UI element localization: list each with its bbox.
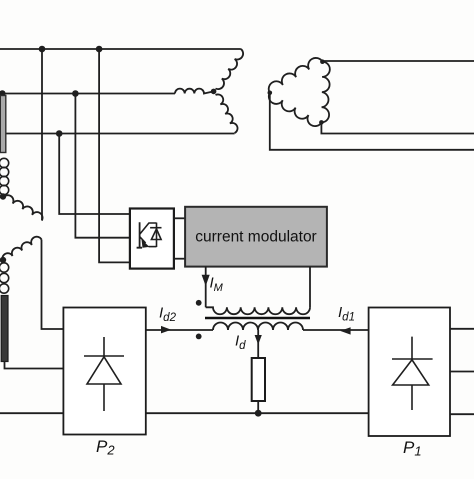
converter P2 box xyxy=(63,308,145,435)
wire rotor to P2 xyxy=(42,240,64,330)
P1 diode triangle xyxy=(393,360,429,385)
rotor winding lower xyxy=(2,237,41,262)
resistor R xyxy=(252,358,265,401)
transformer T2 secondary xyxy=(213,323,303,330)
wire P1 right top xyxy=(450,328,474,330)
transformer T2 core xyxy=(205,317,310,320)
transformer T2 polarity dot lower xyxy=(196,334,202,340)
wire L1 to converter K xyxy=(99,49,130,262)
node delta bottom xyxy=(319,120,324,125)
transformer T2 primary xyxy=(206,307,310,314)
wire left edge to P2 xyxy=(0,412,63,414)
P1 diode line xyxy=(411,337,413,410)
converter P1 box xyxy=(369,308,450,437)
junction dot L3-a xyxy=(56,130,63,137)
converter K box xyxy=(130,209,174,269)
P2 diode line xyxy=(103,337,105,411)
diode D1 line xyxy=(156,223,158,247)
wire P1 right mid xyxy=(450,371,474,373)
machine M1 star point xyxy=(211,89,217,95)
transformer T1 delta side BL xyxy=(269,93,322,126)
wire K to modulator lower xyxy=(174,258,185,260)
IGBT collector lead xyxy=(140,223,157,234)
wire winding to P1 xyxy=(303,329,369,331)
IGBT emitter arrow xyxy=(142,239,150,247)
node delta top xyxy=(320,59,325,64)
P2 diode cathode bar xyxy=(84,355,124,357)
P2 diode triangle xyxy=(87,357,121,384)
machine M1 winding phase c xyxy=(216,94,238,133)
wire winding to resistor xyxy=(257,330,259,358)
brush bar lower xyxy=(1,296,8,362)
machine M1 winding phase a xyxy=(216,49,244,89)
current modulator box xyxy=(185,207,327,267)
node coil-rotor lower xyxy=(0,257,6,263)
svg-text:current modulator: current modulator xyxy=(195,229,316,246)
node coil-rotor upper xyxy=(0,193,6,199)
wire modulator to transformer right xyxy=(309,267,311,308)
rotor winding upper xyxy=(3,195,43,220)
wire resistor to bus xyxy=(257,401,259,413)
transformer T2 polarity dot upper xyxy=(196,300,202,306)
junction dot L1-a xyxy=(39,46,46,53)
IGBT emitter wire xyxy=(149,246,157,248)
junction dot L1-b xyxy=(96,46,103,53)
node bottom bus xyxy=(255,410,262,417)
junction dot L2-b xyxy=(72,90,79,97)
wire delta top terminal xyxy=(322,60,474,62)
arrow I_M xyxy=(202,275,210,286)
bus line L2 xyxy=(0,93,175,95)
field coil lower xyxy=(0,263,9,272)
diode D1 triangle xyxy=(151,229,161,240)
IGBT emitter lead xyxy=(140,237,146,244)
P1 diode cathode bar xyxy=(392,358,433,360)
arrow I_d2 xyxy=(161,326,171,334)
brush bar upper xyxy=(0,96,6,153)
wire P2 to winding xyxy=(146,329,213,331)
machine M1 winding phase b xyxy=(175,89,214,94)
arrow I_d1 xyxy=(340,327,350,334)
junction dot L2-a xyxy=(0,90,6,97)
diode D1 cathode bar xyxy=(150,227,161,229)
transformer T1 delta side TB xyxy=(321,62,329,123)
IGBT gate bar xyxy=(137,222,143,248)
wire K to modulator upper xyxy=(174,217,185,219)
wire delta left terminal xyxy=(270,93,474,150)
wire bottom bus xyxy=(146,412,369,414)
wire brush to P2 xyxy=(5,362,64,369)
wire delta bottom terminal xyxy=(321,122,474,133)
wire L2 to converter K xyxy=(75,94,129,238)
wire L3 to converter K xyxy=(59,134,130,215)
arrow I_d xyxy=(255,335,262,345)
transformer T1 delta side LT xyxy=(269,58,323,93)
bus line L1 xyxy=(0,48,241,50)
wire modulator to transformer left xyxy=(205,267,207,308)
field coil upper xyxy=(0,158,9,167)
bus line L3 xyxy=(0,133,235,135)
wire L1 to left machine xyxy=(41,49,43,221)
node delta left xyxy=(268,91,273,96)
wire P1 right bottom xyxy=(450,413,474,415)
